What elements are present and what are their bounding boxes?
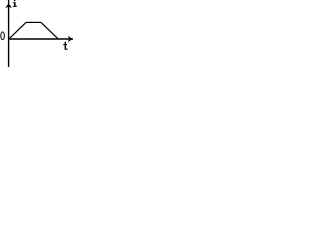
waveform rising edge [9, 22, 26, 39]
label i [13, 0, 17, 7]
background [0, 0, 73, 67]
label 0 (origin) [0, 31, 5, 40]
i-axis vertical line [8, 0, 10, 67]
label t [63, 42, 68, 50]
t-axis horizontal line [8, 38, 73, 40]
i-axis arrowhead [5, 3, 12, 8]
waveform flat top [26, 21, 41, 23]
waveform falling edge [41, 22, 58, 39]
t-axis arrowhead [68, 36, 73, 43]
